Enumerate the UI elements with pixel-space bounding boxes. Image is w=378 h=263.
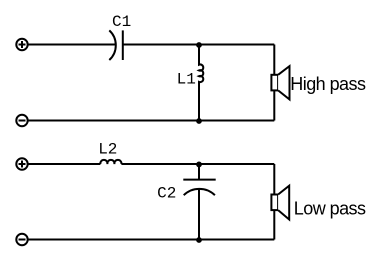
wire L2 to speaker <box>121 163 274 165</box>
terminal - (top circuit return) <box>16 115 27 126</box>
wire speaker vertical (high pass) <box>273 45 275 121</box>
node D (C2 bottom junction) <box>196 237 202 243</box>
svg-text:High pass: High pass <box>290 74 366 94</box>
node A (C1/L1 junction) <box>196 42 202 48</box>
svg-text:Low pass: Low pass <box>294 199 366 219</box>
terminal + (top circuit input) <box>16 39 27 50</box>
wire + terminal to C1 <box>28 44 115 46</box>
inductor L1 <box>199 45 203 121</box>
wire + terminal to L2 <box>28 163 101 165</box>
svg-text:L1: L1 <box>177 71 196 89</box>
wire C1 to speaker top <box>123 44 274 46</box>
wire speaker vertical (low pass) <box>273 164 275 240</box>
capacitor C1 <box>109 30 115 60</box>
speaker LS2 (low pass driver) <box>271 195 278 211</box>
node C (L2/C2 junction) <box>196 162 202 168</box>
node B (L1 bottom junction) <box>196 118 202 124</box>
terminal + (bottom circuit input) <box>16 158 27 169</box>
terminal - (bottom circuit return) <box>16 234 27 245</box>
inductor L2 <box>100 160 121 164</box>
svg-text:L2: L2 <box>98 140 117 158</box>
svg-text:C1: C1 <box>112 13 131 31</box>
wire bottom of top circuit <box>28 120 275 122</box>
svg-text:C2: C2 <box>157 185 176 203</box>
speaker LS1 (high pass driver) <box>271 75 278 91</box>
wire bottom of bottom circuit <box>28 239 275 241</box>
capacitor C2 <box>198 164 200 180</box>
